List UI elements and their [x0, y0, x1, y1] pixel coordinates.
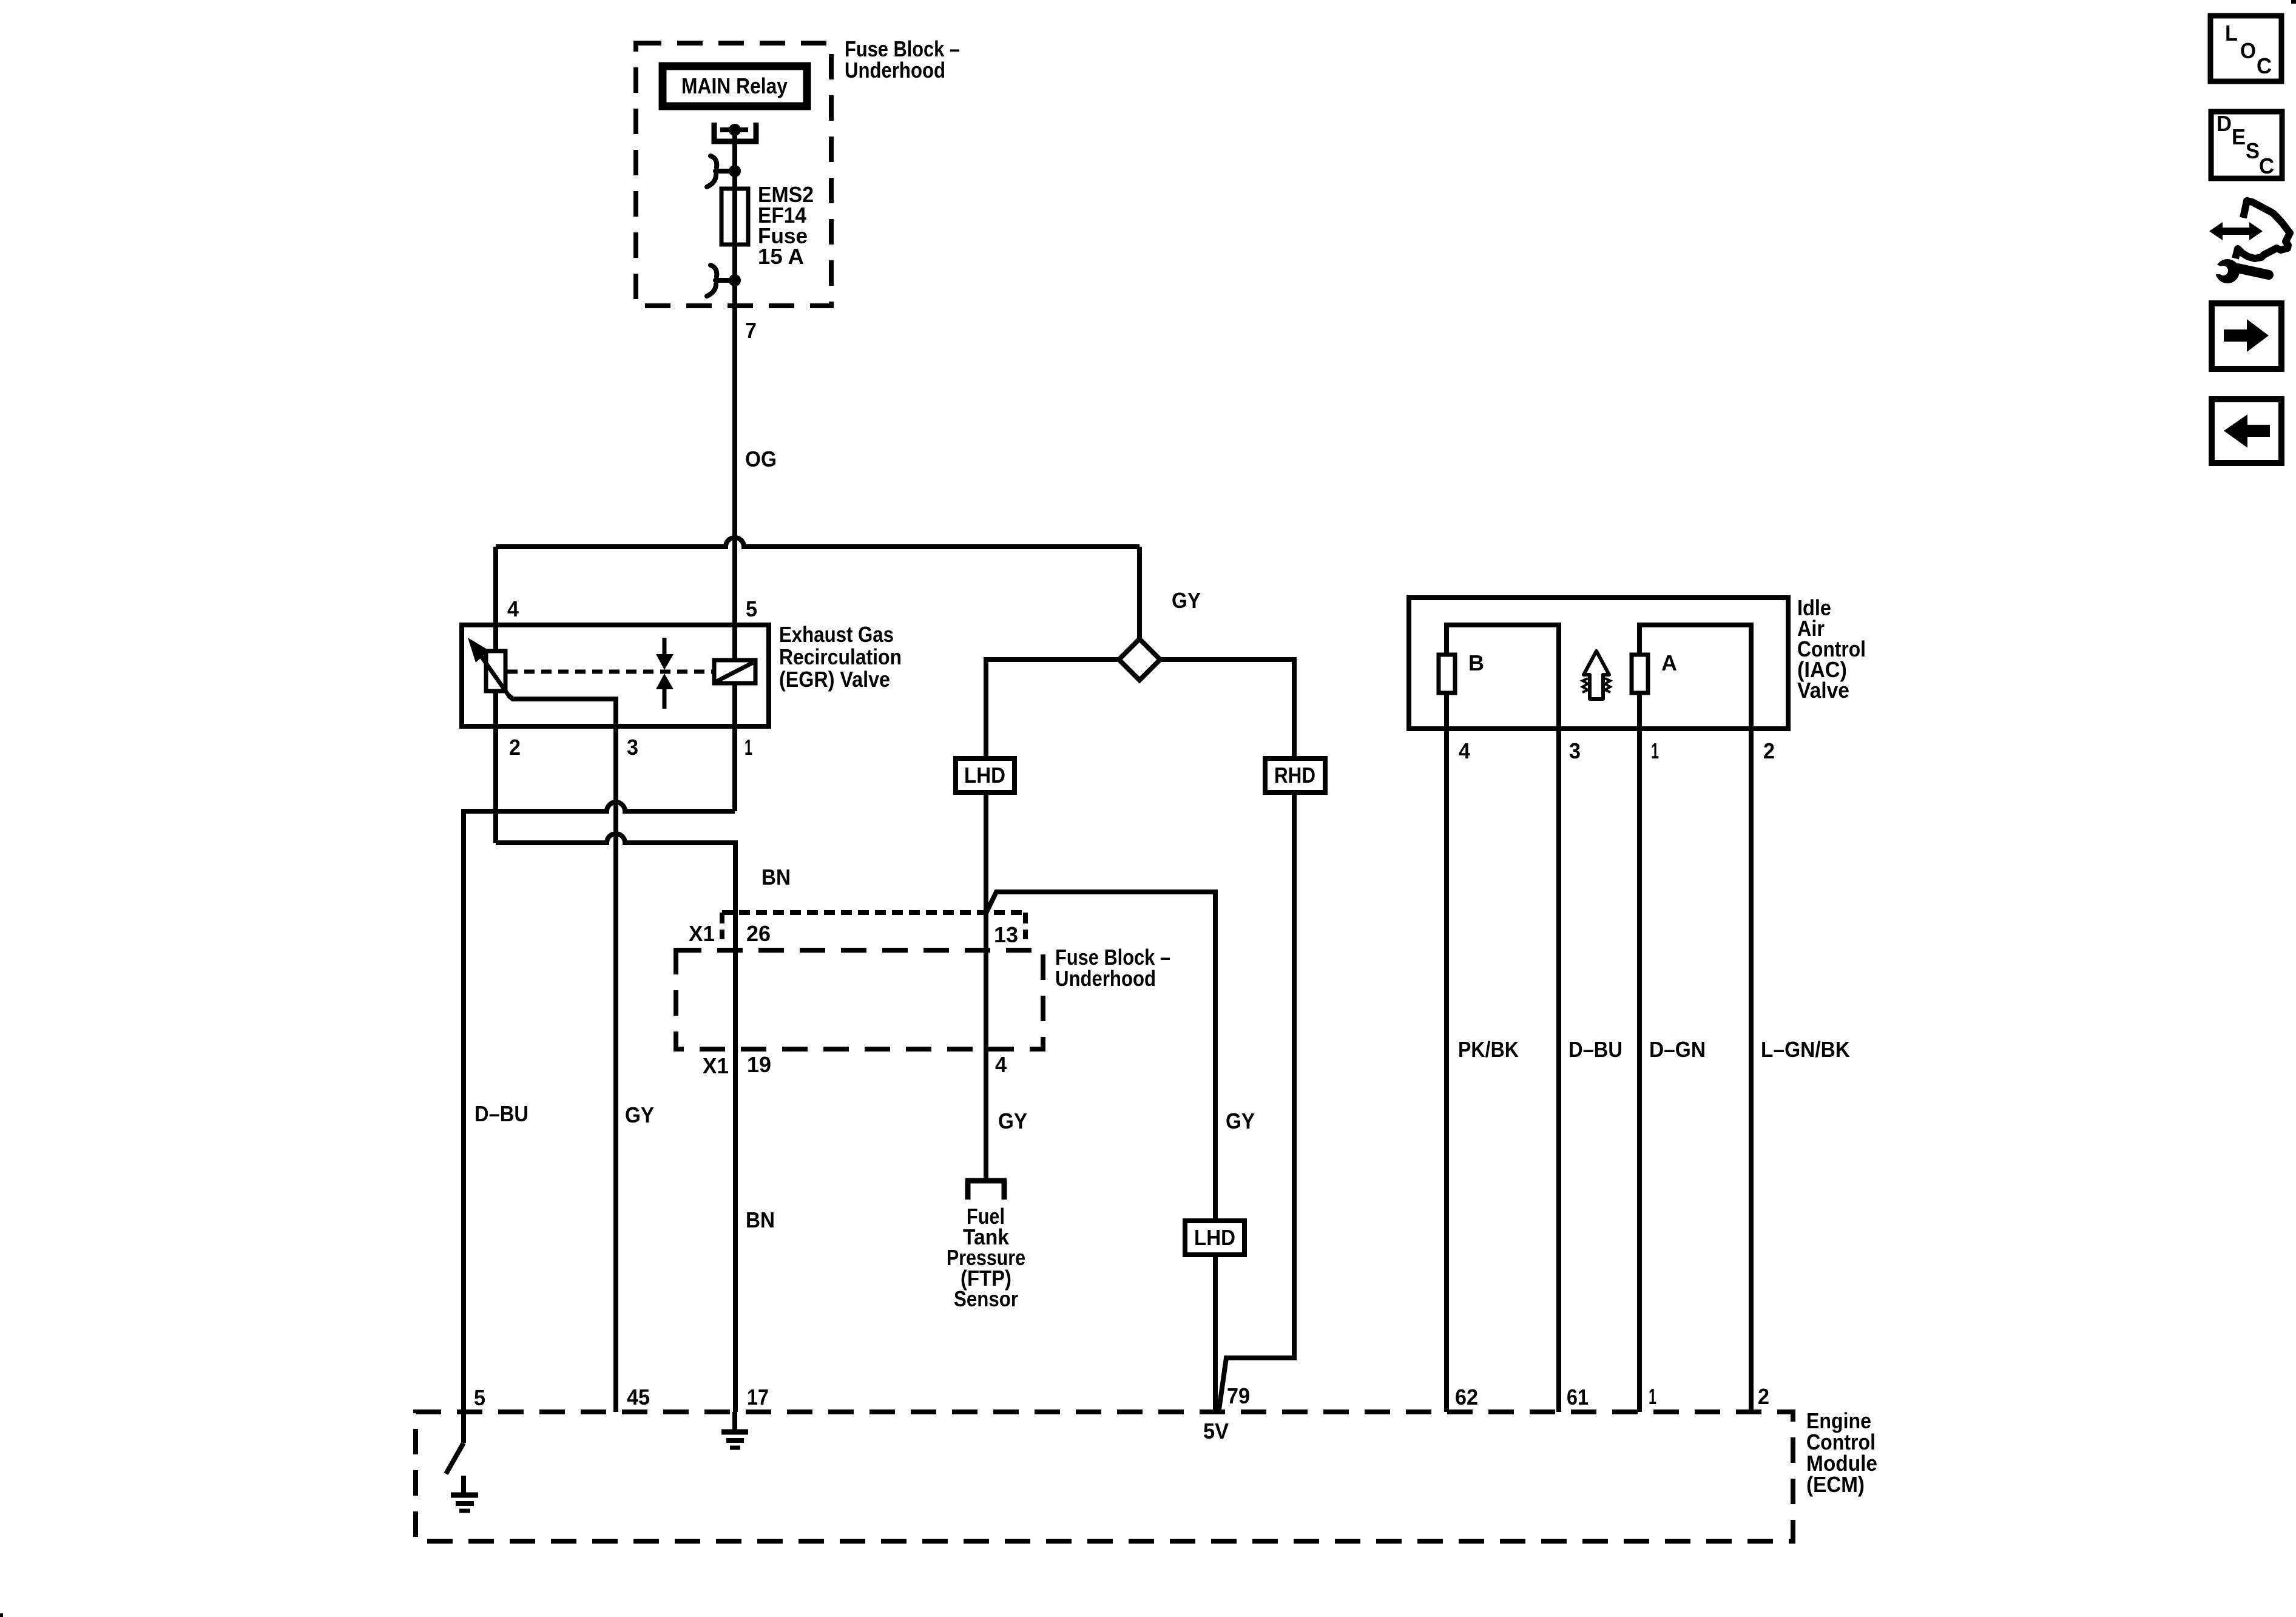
splice S1 dot — [729, 165, 741, 177]
svg-text:D–BU: D–BU — [1568, 1037, 1622, 1062]
IAC coil B element — [1439, 655, 1455, 693]
svg-text:Underhood: Underhood — [845, 58, 945, 83]
svg-text:L: L — [2225, 21, 2238, 46]
svg-text:C: C — [2259, 154, 2274, 178]
splice S2 dot — [729, 274, 741, 286]
wire from 5V line down to EGR pin 4 — [493, 547, 498, 625]
svg-text:A: A — [1661, 650, 1677, 675]
ground symbol inside ECM at pin 5 — [451, 1495, 478, 1511]
wire jog B: EGR pin 2 to BN wire, hop over pin 3 wire — [496, 834, 735, 1412]
IAC coil A element — [1632, 655, 1648, 693]
svg-text:E: E — [2232, 124, 2246, 149]
sidebar part-location icon: double arrow — [2220, 228, 2252, 235]
option box LHD 2 — [1185, 1221, 1244, 1255]
wire L-GN/BK IAC pin2 to ECM 2 — [1749, 729, 1754, 1412]
ground symbol inside ECM at pin 17 — [721, 1432, 748, 1448]
wire splice S2 to pin 7 — [732, 280, 737, 306]
svg-text:Underhood: Underhood — [1055, 966, 1156, 991]
svg-text:Sensor: Sensor — [954, 1286, 1018, 1311]
valve symbol upper arrow — [663, 638, 667, 655]
svg-text:(ECM): (ECM) — [1806, 1472, 1865, 1497]
connector terminal cup below MAIN Relay — [714, 123, 756, 141]
svg-text:2: 2 — [1763, 738, 1775, 763]
wire potentiometer wiper takeoff to pin 3 — [508, 695, 616, 1412]
svg-text:19: 19 — [747, 1052, 771, 1077]
option box RHD (right hand drive) — [1265, 758, 1325, 792]
IAC coil A loop pins 1-2 — [1639, 625, 1751, 729]
svg-text:1: 1 — [745, 735, 752, 760]
wire EGR pin 5 to solenoid coil — [732, 625, 737, 660]
svg-text:LHD: LHD — [964, 763, 1005, 788]
splice diamond — [1119, 639, 1160, 680]
wire diamond left branch to LHD — [986, 660, 1119, 758]
svg-text:C: C — [2257, 53, 2272, 78]
svg-text:RHD: RHD — [1274, 763, 1315, 788]
wire relay to splice S1 — [732, 130, 737, 171]
svg-text:LHD: LHD — [1194, 1225, 1235, 1250]
wire tap from pin 13 up to horizontal run — [986, 892, 1215, 1221]
svg-text:1: 1 — [1649, 1384, 1656, 1409]
svg-text:4: 4 — [995, 1052, 1007, 1077]
svg-text:15 A: 15 A — [758, 244, 804, 269]
splice S1 branch hook symbol — [711, 156, 717, 167]
svg-text:62: 62 — [1455, 1385, 1478, 1409]
wire solenoid coil to EGR pin 1 — [732, 683, 737, 811]
stepper spring left — [1582, 678, 1588, 692]
svg-text:Exhaust Gas: Exhaust Gas — [779, 622, 894, 647]
svg-text:D–BU: D–BU — [474, 1101, 528, 1126]
svg-text:7: 7 — [745, 318, 757, 343]
valve symbol lower arrow — [656, 673, 674, 689]
svg-text:S: S — [2246, 138, 2260, 163]
svg-text:X1: X1 — [689, 921, 715, 946]
wire LHD2 to ECM pin 79 — [1213, 1255, 1218, 1414]
wire RHD down — [1218, 792, 1294, 1414]
stepper spring right — [1605, 678, 1610, 692]
IAC coil B loop pins 4-3 — [1447, 625, 1559, 729]
wire jog A: EGR pin 1 to D-BU wire, hop over pin 3 wire — [464, 802, 735, 1412]
ECM Engine Control Module dashed box — [416, 1412, 1793, 1541]
svg-text:45: 45 — [627, 1385, 650, 1409]
svg-text:D–GN: D–GN — [1649, 1037, 1706, 1062]
svg-text:2: 2 — [509, 735, 521, 760]
wire through fuse — [732, 189, 737, 245]
svg-text:Valve: Valve — [1797, 678, 1849, 703]
scan speck bottom left — [0, 1613, 3, 1617]
svg-text:GY: GY — [998, 1109, 1027, 1133]
svg-text:5V: 5V — [1203, 1419, 1229, 1443]
svg-text:1: 1 — [1651, 738, 1659, 763]
potentiometer wiper arrow — [474, 647, 510, 698]
wire from 5V line down to splice diamond — [1137, 547, 1142, 639]
svg-text:79: 79 — [1227, 1383, 1250, 1408]
switch inside ECM at pin 5 — [461, 1412, 466, 1443]
svg-text:61: 61 — [1567, 1385, 1589, 1409]
wire potentiometer to EGR pin 2 — [493, 691, 498, 843]
svg-text:O: O — [2240, 38, 2256, 63]
potentiometer element in EGR — [486, 651, 505, 691]
wire PK/BK IAC pin4 to ECM 62 — [1444, 729, 1449, 1412]
fuse block 1 Fuse Block - Underhood dashed box — [636, 43, 831, 306]
terminal bar — [720, 127, 748, 132]
wire GY from LHD down through fuse block pin 13 to 4 to FTP sensor — [984, 792, 988, 1180]
svg-text:BN: BN — [761, 865, 791, 890]
svg-text:OG: OG — [745, 447, 777, 471]
junction dot relay terminal — [729, 124, 741, 136]
svg-text:5: 5 — [746, 596, 757, 621]
fuse block 2 Fuse Block - Underhood dashed box — [676, 950, 1043, 1049]
FTP sensor terminal symbol — [965, 1181, 1007, 1200]
svg-text:4: 4 — [1459, 738, 1470, 763]
svg-text:26: 26 — [746, 921, 771, 946]
svg-text:GY: GY — [1226, 1109, 1255, 1133]
svg-text:PK/BK: PK/BK — [1458, 1037, 1519, 1062]
sidebar part-location icon: part outline — [2235, 201, 2290, 258]
wire D-GN IAC pin1 to ECM 1 — [1637, 729, 1642, 1412]
option box LHD (left hand drive) — [956, 758, 1015, 792]
scan speck top right — [2291, 0, 2296, 4]
fuse EMS2 EF14 15A body — [721, 189, 748, 245]
svg-text:4: 4 — [507, 596, 519, 621]
svg-text:X1: X1 — [703, 1053, 729, 1078]
svg-text:13: 13 — [994, 922, 1018, 947]
solenoid coil element in EGR — [714, 660, 755, 683]
wire OG from fuse block pin 7 down to EGR pin 5 — [732, 306, 737, 625]
svg-text:2: 2 — [1758, 1384, 1769, 1409]
wire fuse to splice S2 — [732, 245, 737, 280]
wire D-BU IAC pin3 to ECM 61 — [1556, 729, 1561, 1412]
EGR valve box — [462, 625, 769, 726]
wire ECM pin 17 to ground — [732, 1412, 737, 1430]
wire diamond right branch to RHD — [1160, 660, 1294, 758]
sidebar DESC box — [2211, 112, 2282, 178]
svg-text:5: 5 — [474, 1385, 485, 1410]
svg-text:GY: GY — [1172, 588, 1201, 613]
IAC valve outer box — [1409, 598, 1788, 729]
svg-text:3: 3 — [627, 735, 638, 760]
connector X1 dotted line row — [722, 913, 1025, 939]
svg-text:GY: GY — [625, 1102, 654, 1127]
svg-text:D: D — [2217, 111, 2232, 136]
wire splice S1 to fuse — [732, 171, 737, 189]
svg-text:(EGR) Valve: (EGR) Valve — [779, 667, 890, 692]
svg-text:L–GN/BK: L–GN/BK — [1761, 1037, 1850, 1062]
mechanical link dashed line — [507, 670, 714, 674]
sidebar part-location icon: wrench — [2215, 259, 2240, 283]
wire 5V reference horizontal with hop over OG wire — [496, 538, 1140, 547]
svg-text:BN: BN — [746, 1207, 775, 1232]
sidebar next-page box (right arrow) — [2212, 303, 2281, 369]
svg-text:3: 3 — [1569, 738, 1581, 763]
relay K MAIN Relay box — [663, 66, 807, 106]
IAC stepper motor arrow symbol — [1584, 651, 1609, 699]
wire EGR pin 4 to potentiometer — [493, 625, 498, 651]
svg-text:MAIN Relay: MAIN Relay — [681, 73, 788, 98]
splice S2 branch hook symbol — [711, 265, 717, 277]
svg-text:17: 17 — [747, 1385, 769, 1409]
svg-text:B: B — [1468, 650, 1484, 675]
svg-text:Recirculation: Recirculation — [779, 644, 902, 669]
sidebar prev-page box (left arrow) — [2212, 399, 2281, 463]
sidebar LOC box — [2210, 16, 2281, 81]
